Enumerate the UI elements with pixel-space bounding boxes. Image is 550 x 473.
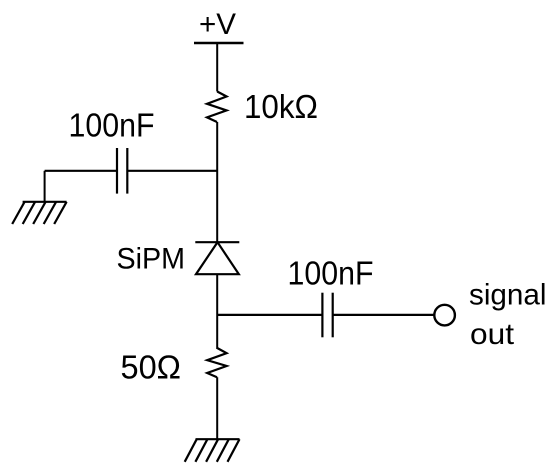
wire R1 to diode D1 [216,122,218,242]
ground G2 [185,439,240,462]
svg-text:signal: signal [469,279,547,312]
capacitor C2 right plate [332,293,334,338]
resistor R2 [207,348,226,377]
resistor R1 [207,92,227,123]
wire C2 to terminal [333,314,434,316]
diode D1 cathode bar [195,241,239,243]
capacitor C1 right plate [126,148,128,194]
power rail bar [194,42,244,44]
wire node A to capacitor C1 [127,170,217,172]
capacitor C1 left plate [116,148,118,194]
svg-text:out: out [470,318,515,351]
terminal circle [434,305,455,326]
wire D1 to node B [216,274,218,349]
svg-text:+V: +V [199,8,236,41]
wire node B to capacitor C2 [217,314,322,316]
wire +V to R1 [216,43,218,92]
svg-text:100nF: 100nF [69,107,155,144]
wire C1 to ground G1 [45,170,117,172]
diode D1 triangle [196,242,239,274]
svg-text:100nF: 100nF [288,254,374,291]
ground G1 [12,202,66,224]
svg-text:10kΩ: 10kΩ [244,88,318,125]
svg-text:50Ω: 50Ω [121,349,182,386]
capacitor C2 left plate [321,293,323,338]
svg-text:SiPM: SiPM [117,243,186,276]
wire R2 to ground G2 [216,377,218,439]
